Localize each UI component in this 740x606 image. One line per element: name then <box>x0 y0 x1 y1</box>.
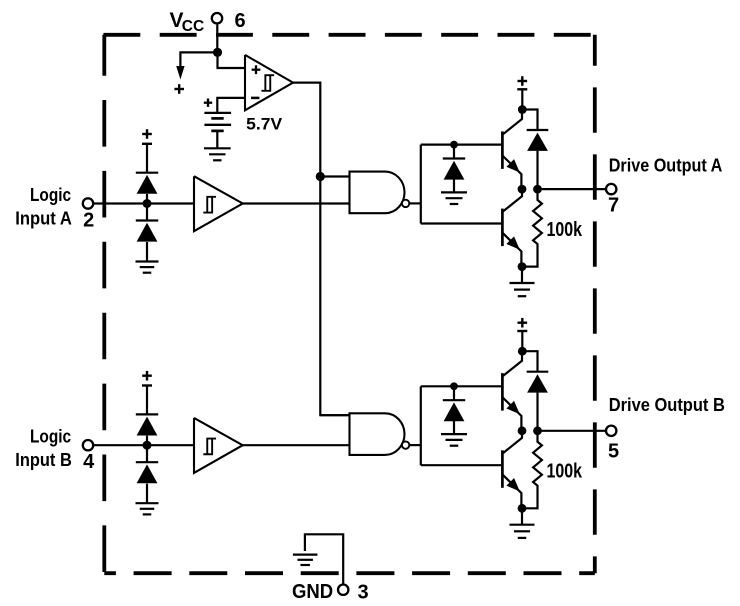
pin 4 Logic Input B <box>15 427 95 474</box>
label R2 value 100k <box>547 461 583 483</box>
svg-text:5.7V: 5.7V <box>246 114 283 133</box>
schmitt buffer U1 input A <box>194 176 243 231</box>
wire: rail junction to diode D2c <box>453 386 455 400</box>
wire: top junction to diode D2d <box>522 351 538 372</box>
V+ tick output stage B <box>517 318 527 331</box>
label 5.7V <box>246 114 283 133</box>
NAND gate G1 channel A <box>350 172 410 214</box>
transistor Q3 (upper NPN, channel B) <box>502 351 522 431</box>
wire: top junction to diode D1d <box>522 110 538 131</box>
clamp diode D1b (ground to input A) <box>136 221 158 242</box>
wire: output node to pin <box>538 430 607 432</box>
resistor R2 100k (output B pulldown) <box>522 431 542 509</box>
label pin number 5 <box>608 441 619 463</box>
clamp diode D1a (input A to V+) <box>136 173 158 194</box>
transistor Q4 (lower NPN, channel B) <box>502 431 522 509</box>
ground (GND pin) <box>293 555 318 565</box>
diode D1c (ground clamp on drive rail A) <box>443 159 465 180</box>
svg-text:6: 6 <box>235 10 246 32</box>
node: enable bus to NAND A <box>316 172 325 181</box>
wire: buffer U2 output to NAND <box>243 444 350 446</box>
svg-text:Input A: Input A <box>15 208 72 228</box>
IC package boundary (dashed) <box>103 35 594 573</box>
wire: V+ to collector Q3 <box>521 331 523 351</box>
wire: clamp diode stack input A <box>146 194 148 221</box>
schmitt buffer U2 input B <box>194 418 243 473</box>
svg-text:7: 7 <box>608 195 619 217</box>
node: drive output B (resistor tap) <box>533 426 542 435</box>
V+ tick above clamp diode D2a <box>142 371 152 386</box>
wire: output node to pin <box>538 188 607 190</box>
diode D2c (ground clamp on drive rail B) <box>443 400 465 421</box>
clamp diode D2b (ground to input B) <box>136 462 158 483</box>
battery V1 5.7V reference <box>204 99 231 131</box>
svg-text:3: 3 <box>357 581 368 603</box>
wire: GND pin bracket <box>305 534 343 584</box>
pin 2 Logic Input A <box>15 185 94 232</box>
node: pull-up rail junction A <box>450 141 458 149</box>
wire: NAND B output node <box>410 386 503 465</box>
wire: diode D1c to ground <box>453 179 455 193</box>
wire: bottom junction to ground B <box>521 508 523 524</box>
wire: enable bus to NAND B top input <box>320 414 349 416</box>
ground (input B clamp) <box>136 503 159 514</box>
svg-text:Logic: Logic <box>30 427 71 447</box>
ground (drive rail clamp A) <box>441 192 467 204</box>
svg-text:Drive Output B: Drive Output B <box>609 395 725 415</box>
pin 3 GND <box>292 581 369 603</box>
node: drive output A (resistor tap) <box>533 185 542 194</box>
svg-text:CC: CC <box>182 18 204 35</box>
wire: comparator output / enable bus <box>293 83 350 416</box>
wire: VCC pin into package <box>216 23 218 52</box>
svg-text:Input B: Input B <box>15 450 72 470</box>
wire: clamp diode stack input B <box>146 436 148 463</box>
NAND gate G2 channel B <box>350 413 410 455</box>
comparator U5 (UVLO schmitt) <box>245 55 293 110</box>
bias arrow (to internal V+) <box>174 66 184 94</box>
node: emitter junction Q2 <box>518 262 527 271</box>
pin 5 Drive Output B <box>606 426 616 436</box>
wire: diode D2d anode to output node <box>536 393 538 431</box>
wire: enable bus to NAND A top input <box>320 175 349 177</box>
label pin number 7 <box>608 195 619 217</box>
node: emitter junction Q4 <box>518 504 527 513</box>
ground (5.7V reference) <box>204 148 231 160</box>
wire: V+ to clamp diode D2a <box>146 386 148 415</box>
wire: diode D1d anode to output node <box>536 151 538 189</box>
svg-text:4: 4 <box>83 451 95 473</box>
wire: V+ to collector Q1 <box>521 89 523 109</box>
node: input A clamp junction <box>143 199 152 208</box>
ground (output stage A) <box>510 283 535 296</box>
resistor R1 100k (output A pulldown) <box>522 189 542 267</box>
node: collector junction Q1 <box>518 105 527 114</box>
node: pull-up rail junction B <box>450 382 458 390</box>
node: VCC junction <box>213 48 222 57</box>
transistor Q1 (upper NPN, channel A) <box>502 110 522 190</box>
svg-text:100k: 100k <box>547 461 583 483</box>
clamp diode D2a (input B to V+) <box>136 414 158 435</box>
pin 6 VCC <box>170 9 246 35</box>
wire: comparator - input to reference <box>217 98 245 113</box>
transistor Q2 (lower NPN, channel A) <box>502 189 522 267</box>
label Drive Output B <box>609 395 725 415</box>
diode D2d (output B to V+) <box>527 372 549 393</box>
ground (output stage B) <box>510 525 535 538</box>
V+ tick above clamp diode D1a <box>142 129 152 144</box>
label R1 value 100k <box>547 219 583 241</box>
svg-text:Logic: Logic <box>30 185 71 205</box>
wire: bottom junction to ground A <box>521 267 523 283</box>
wire: diode D2c to ground <box>453 420 455 434</box>
wire: V+ to clamp diode D1a <box>146 144 148 173</box>
wire: VCC junction to bias arrow <box>180 52 217 67</box>
V+ tick output stage A <box>517 76 527 89</box>
svg-text:2: 2 <box>83 209 94 231</box>
ground (drive rail clamp B) <box>441 434 467 446</box>
pin 7 Drive Output A <box>606 184 616 194</box>
wire: rail junction to diode D1c <box>453 145 455 159</box>
node: collector junction Q3 <box>518 347 527 356</box>
svg-text:GND: GND <box>292 581 333 603</box>
node: drive output A (emitter) <box>518 185 527 194</box>
wire: battery to ground <box>216 131 218 148</box>
wire: clamp diode D2b to ground <box>146 484 148 504</box>
wire: input B pin to buffer <box>93 444 194 446</box>
svg-text:100k: 100k <box>547 219 583 241</box>
wire: input A pin to buffer <box>93 202 194 204</box>
label Drive Output A <box>609 156 723 176</box>
wire: buffer U1 output to NAND <box>243 202 350 204</box>
svg-text:Drive Output A: Drive Output A <box>609 156 723 176</box>
svg-text:5: 5 <box>608 441 619 463</box>
wire: VCC junction to comparator + input <box>218 52 246 68</box>
node: drive output B (emitter) <box>518 426 527 435</box>
ground (input A clamp) <box>136 262 159 273</box>
wire: NAND A output node <box>410 145 503 224</box>
diode D1d (output A to V+) <box>527 130 549 151</box>
wire: clamp diode D1b to ground <box>146 242 148 262</box>
node: input B clamp junction <box>143 441 152 450</box>
